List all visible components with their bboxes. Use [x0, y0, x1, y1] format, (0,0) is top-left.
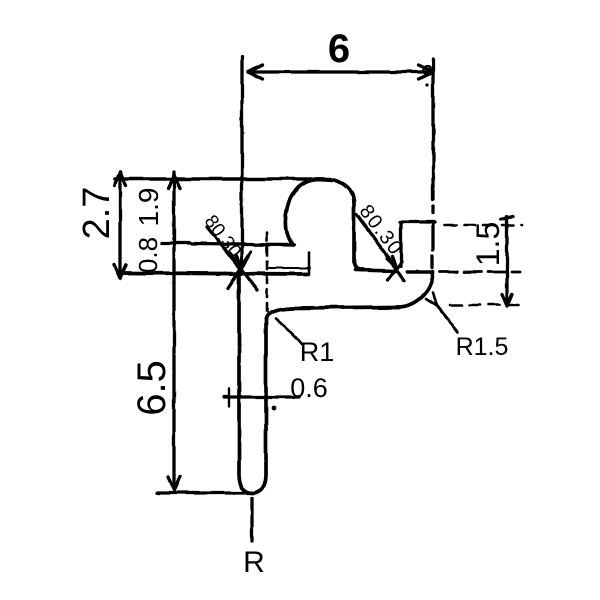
svg-text:R1: R1	[300, 337, 335, 367]
svg-text:6: 6	[328, 27, 350, 71]
svg-text:2.7: 2.7	[76, 187, 118, 240]
svg-text:0.6: 0.6	[290, 373, 328, 403]
svg-text:R: R	[243, 546, 265, 579]
svg-text:0.8: 0.8	[133, 237, 163, 273]
svg-text:1.9: 1.9	[133, 188, 164, 227]
svg-text:1.5: 1.5	[470, 222, 506, 266]
svg-text:R1.5: R1.5	[456, 333, 509, 361]
svg-text:6.5: 6.5	[130, 360, 174, 416]
